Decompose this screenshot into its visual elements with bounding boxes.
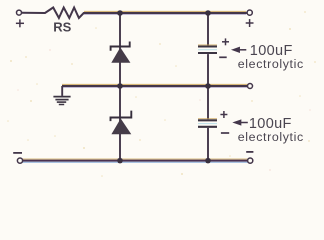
- svg-text:electrolytic: electrolytic: [238, 57, 304, 71]
- svg-text:electrolytic: electrolytic: [238, 130, 304, 144]
- svg-text:RS: RS: [53, 19, 71, 34]
